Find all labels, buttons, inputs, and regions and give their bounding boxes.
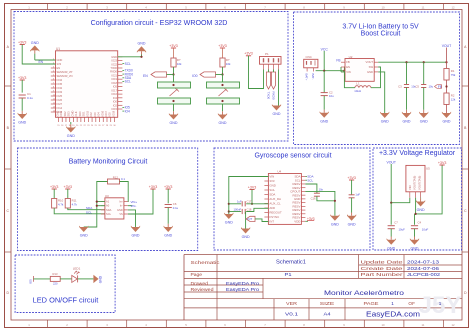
wire IO5 to R13 (34, 278, 51, 280)
LED1 symbol (72, 271, 80, 283)
section box: Configuration circuit ESP32 (14, 12, 288, 142)
svg-text:GND: GND (320, 119, 328, 123)
regulator U5 body (406, 165, 425, 191)
power flag +3V3 (U4) (248, 185, 257, 189)
junction VIN node (343, 70, 345, 72)
junction A0/A1 (96, 205, 98, 207)
svg-text:SENSOR_VP: SENSOR_VP (57, 70, 73, 74)
svg-text:IO16: IO16 (111, 92, 117, 96)
wire U4 GND to ground (305, 191, 335, 215)
junction 3V3 / C4 (415, 213, 417, 215)
svg-text:IO21: IO21 (111, 73, 117, 77)
wire resistor to node (IO0) (222, 67, 224, 75)
junction button top (EN) (172, 84, 174, 86)
wire R13 to LED1 (60, 278, 72, 280)
svg-text:LED ON/OFF circuit: LED ON/OFF circuit (33, 296, 99, 305)
svg-text:SCL: SCL (86, 210, 92, 214)
wire rail to capacitor C5 (423, 62, 425, 84)
svg-text:10: 10 (381, 6, 385, 10)
U4 left pins (264, 175, 282, 224)
wire stubs to right net labels (122, 64, 124, 112)
svg-text:SCL: SCL (125, 62, 131, 66)
svg-text:10uH: 10uH (354, 89, 361, 93)
wire +3V3 to P1 pin 1 (249, 56, 264, 89)
svg-text:1: 1 (439, 301, 442, 306)
junction at ground flag (140, 56, 142, 58)
svg-text:SENSOR_VN: SENSOR_VN (57, 74, 73, 78)
resistor R2 (feedback lower) (444, 93, 449, 105)
junction left rail / C18 (228, 210, 230, 212)
gyroscope U4 body (268, 174, 301, 225)
svg-text:U1: U1 (56, 47, 60, 51)
pin connection +3V3 to resistor (IO0) (222, 48, 224, 58)
wire C18 to U4 (246, 208, 268, 211)
svg-text:IO0: IO0 (113, 100, 118, 104)
ground (C17 C18) (241, 227, 250, 239)
svg-text:VOUT(TAB): VOUT(TAB) (413, 176, 417, 190)
ground (C2) (320, 96, 329, 124)
pin connection R2 to ground (red) (446, 105, 448, 114)
svg-text:GND: GND (381, 120, 389, 124)
power flag +3V3 (U1 supply) (18, 40, 27, 44)
svg-text:GND: GND (170, 121, 178, 125)
connector P1 body (260, 57, 282, 65)
capacitor C19 (349, 195, 355, 198)
svg-text:IO5: IO5 (113, 85, 118, 89)
wire +3V3 to capacitor C1 (21, 80, 23, 93)
svg-text:VDD: VDD (294, 219, 300, 223)
resistor R13 body (50, 276, 60, 281)
shunt resistor R12 body (108, 179, 120, 184)
svg-text:IO15: IO15 (111, 107, 117, 111)
svg-text:IO4: IO4 (97, 112, 101, 117)
svg-text:10uF: 10uF (422, 228, 429, 232)
frame row letters (6, 45, 467, 295)
svg-text:AD0: AD0 (269, 206, 275, 210)
svg-text:11: 11 (422, 323, 425, 327)
svg-text:GND: GND (443, 120, 451, 124)
wire U3 GND down (128, 210, 136, 227)
svg-text:+3V3: +3V3 (248, 185, 257, 189)
title block outline (184, 255, 462, 321)
wire P1 pin 2 to port (268, 70, 270, 73)
svg-text:+3V3: +3V3 (438, 161, 447, 165)
wire EN/VIN join (341, 71, 344, 73)
svg-text:2024-07-06: 2024-07-06 (407, 266, 440, 271)
svg-text:Update Date: Update Date (361, 259, 404, 264)
svg-text:JLCPCB-002: JLCPCB-002 (407, 272, 441, 277)
power flag +3V3 (EN button) (169, 44, 178, 48)
boost IC U2 body (345, 59, 374, 82)
svg-text:GND: GND (117, 208, 123, 212)
wire INT port to U4 (255, 219, 268, 222)
power flag +3V3 (regulator output) (438, 161, 447, 165)
capacitor C18 (inline) (242, 209, 245, 214)
power flag +3V3 (EN pullup) (18, 76, 27, 80)
battery connector CN4 body (304, 59, 318, 68)
svg-text:Reviewed: Reviewed (191, 287, 215, 292)
push button lower contact (IO0) (207, 98, 240, 104)
svg-text:SCL: SCL (269, 188, 275, 192)
svg-text:220: 220 (53, 282, 58, 286)
svg-text:C7: C7 (394, 221, 398, 225)
svg-text:C3: C3 (398, 84, 402, 88)
svg-text:10u: 10u (429, 84, 434, 88)
wire 3V3 net to C4 (414, 214, 416, 225)
ground (U1 right GND) (137, 42, 146, 57)
svg-text:C5: C5 (415, 84, 419, 88)
wire +3V3 to R11 (67, 189, 69, 199)
ESP32 module U1 body (56, 51, 118, 118)
capacitor C17 (inline) (242, 201, 245, 206)
svg-text:1uF: 1uF (237, 199, 242, 203)
svg-text:4.7k: 4.7k (72, 202, 78, 206)
svg-text:SDA: SDA (106, 208, 112, 212)
svg-text:R13: R13 (53, 272, 58, 276)
svg-text:IO2: IO2 (113, 103, 118, 107)
capacitor C6 (165, 205, 172, 208)
svg-text:C16: C16 (311, 197, 316, 201)
boost IC U2 pin stubs (341, 62, 378, 72)
svg-text:+3V3: +3V3 (64, 185, 73, 189)
svg-text:C18: C18 (247, 208, 252, 212)
svg-text:GND: GND (403, 120, 411, 124)
svg-text:GND: GND (269, 184, 275, 188)
svg-text:FB: FB (346, 60, 350, 64)
junction +3V3 / C17 wire (251, 203, 253, 205)
wire node to button (IO0) (222, 75, 224, 83)
svg-text:LED1: LED1 (73, 266, 81, 270)
svg-text:RXD0: RXD0 (271, 92, 275, 100)
svg-text:AUX_CL: AUX_CL (269, 202, 281, 206)
junction FB node (445, 85, 447, 87)
svg-text:+3.3V Voltage Regulator: +3.3V Voltage Regulator (379, 150, 456, 157)
svg-text:U5: U5 (426, 167, 430, 171)
wire GND flag to U1 GND pin (35, 59, 56, 61)
svg-text:IO14: IO14 (57, 106, 63, 110)
wire U5 VOUT to +3V3 (416, 165, 443, 214)
title block vertical lines (217, 255, 404, 321)
wire resistor to node (EN) (173, 67, 175, 75)
svg-text:TXD0: TXD0 (266, 92, 270, 100)
svg-text:0.1u: 0.1u (27, 96, 33, 100)
svg-text:3V3: 3V3 (269, 179, 275, 183)
svg-text:Create Date: Create Date (361, 266, 404, 271)
junction (IO0) (221, 73, 223, 75)
wire port to node (IO0) (216, 74, 223, 76)
svg-text:GND: GND (367, 70, 373, 74)
push button switch lever (EN) (170, 89, 180, 97)
svg-text:GND: GND (417, 208, 425, 212)
push button upper contact (IO0) (207, 82, 240, 88)
svg-text:4.7k: 4.7k (58, 202, 64, 206)
svg-text:IO33: IO33 (57, 90, 63, 94)
section box: +3.3V Voltage Regulator (373, 148, 462, 250)
wire +3V3 to R10 (53, 189, 55, 199)
power flag +3V3 (C6) (164, 185, 173, 189)
svg-text:CN4: CN4 (306, 55, 312, 59)
junction VOUT rail / C3 (405, 61, 407, 63)
svg-text:U4: U4 (277, 170, 281, 174)
ground (U3 addr) (79, 226, 88, 238)
svg-text:+3V3: +3V3 (218, 44, 227, 48)
svg-text:+3V3: +3V3 (164, 185, 173, 189)
resistor (EN pullup) (171, 58, 176, 67)
svg-text:0.1: 0.1 (121, 177, 125, 181)
svg-text:Boost Circuit: Boost Circuit (361, 31, 401, 38)
U3 pin names (106, 200, 123, 216)
junction (EN) (172, 73, 174, 75)
svg-text:In+: In+ (119, 200, 123, 204)
ground (C4) (410, 229, 419, 251)
wire U3 VS to +3V3 (128, 189, 153, 214)
wire U3 A0 (97, 205, 105, 207)
svg-text:CMD: CMD (70, 110, 74, 116)
svg-text:11: 11 (422, 6, 425, 10)
ground (U4 left rail) (224, 213, 233, 225)
svg-text:EN: EN (39, 60, 44, 64)
svg-text:IO35: IO35 (57, 82, 63, 86)
wire U2 GND pin down (378, 72, 385, 113)
net stub IO5 (33, 276, 35, 282)
svg-text:A4: A4 (324, 312, 332, 317)
net port (266, 72, 270, 89)
svg-text:RXD0: RXD0 (110, 70, 117, 74)
wire rail to C17 (229, 203, 241, 205)
svg-text:P1: P1 (285, 272, 293, 277)
svg-text:VIN: VIN (346, 70, 351, 74)
svg-text:IO19: IO19 (111, 77, 117, 81)
svg-text:1: 1 (391, 301, 394, 306)
battery CN4 pin stubs (307, 68, 314, 72)
junction VCC node (323, 70, 325, 72)
junction left rail / C17 (228, 203, 230, 205)
svg-text:IO32: IO32 (57, 86, 63, 90)
net port (246, 216, 255, 221)
svg-text:Gyroscope sensor circuit: Gyroscope sensor circuit (254, 153, 331, 160)
svg-text:BAT-: BAT- (311, 74, 315, 80)
power flag +3V3 (U3 VS) (149, 185, 158, 189)
svg-text:IO34: IO34 (57, 78, 63, 82)
svg-text:+3V3: +3V3 (18, 40, 27, 44)
svg-text:GND: GND (138, 42, 146, 46)
svg-text:Configuration circuit - ESP32: Configuration circuit - ESP32 WROOM 32D (91, 19, 228, 27)
net port flag IO0 (200, 72, 216, 77)
svg-text:IO18: IO18 (111, 110, 115, 116)
capacitor C5 (421, 85, 426, 88)
wire port to node (EN) (167, 74, 174, 76)
junction button bottom (IO0) (221, 100, 223, 102)
svg-text:IO17: IO17 (111, 88, 117, 92)
svg-text:GND: GND (242, 235, 250, 239)
ground (U2) (380, 112, 389, 124)
svg-text:IO17: IO17 (104, 110, 108, 116)
svg-text:IO15: IO15 (85, 110, 89, 116)
svg-text:Battery Monitoring Circuit: Battery Monitoring Circuit (69, 159, 148, 166)
section box: Gyroscope sensor circuit (214, 148, 370, 250)
capacitor C2 (321, 93, 328, 96)
svg-text:1uF: 1uF (355, 192, 360, 196)
U4 right pins (290, 175, 305, 224)
resistor R10 (52, 199, 57, 209)
svg-text:12: 12 (451, 6, 455, 10)
svg-text:+3V3: +3V3 (244, 52, 253, 56)
capacitor C16 (314, 193, 320, 196)
ground (U1 left GND) (30, 41, 39, 60)
ground (U3) (131, 226, 140, 238)
net port (271, 72, 275, 89)
ESP32 U1 left pins (51, 58, 73, 114)
wire LED1 to ground (78, 278, 94, 280)
section box: Battery Monitoring Circuit (18, 148, 198, 251)
wire P1 pin 4 to ground (278, 70, 280, 106)
ground (U5 tab) (416, 198, 425, 212)
wire EN tied to VIN (340, 67, 342, 72)
svg-text:GND: GND (67, 134, 75, 138)
svg-text:+3V3: +3V3 (149, 185, 158, 189)
wire C16 to ground net (317, 196, 335, 201)
wire U5 VIN to VOUT net (391, 198, 410, 203)
svg-text:10u: 10u (329, 94, 334, 98)
svg-text:EN: EN (143, 74, 148, 78)
svg-text:IO26: IO26 (57, 98, 63, 102)
U5 pin names (vertical) (408, 176, 422, 190)
ground (C19) (347, 198, 356, 227)
section box: 3.7V Li-Ion Battery to 5V Boost Circuit (294, 12, 460, 145)
svg-text:3.7V Li-Ion Battery to 5V: 3.7V Li-Ion Battery to 5V (342, 24, 419, 31)
junction C16 / ground wire (334, 200, 336, 202)
svg-text:INT: INT (247, 217, 252, 221)
ground (rotated right) (93, 275, 102, 284)
svg-text:L1: L1 (356, 82, 360, 86)
wire U3 A1/A0 to ground (84, 202, 105, 227)
svg-text:Schematic: Schematic (191, 260, 221, 265)
power flag +3V3 (connector P1) (244, 52, 253, 56)
svg-text:IO4: IO4 (125, 109, 130, 113)
power flag +3V3 (R11) (64, 185, 73, 189)
pin connection R1 to R2 (red) (446, 80, 448, 93)
svg-text:FSYNC: FSYNC (269, 215, 279, 219)
junction VOUT rail / divider (445, 61, 447, 63)
svg-text:CLK: CLK (74, 111, 78, 116)
U3 pin stubs (101, 202, 128, 214)
svg-text:75k: 75k (451, 73, 456, 77)
svg-text:SD2: SD2 (63, 111, 67, 117)
svg-text:VIN: VIN (408, 185, 412, 190)
capacitor C7 (388, 226, 395, 229)
svg-text:GND: GND (387, 246, 395, 250)
ESP32 U1 right pins (110, 55, 122, 111)
power flag +3V3 (R10) (50, 185, 59, 189)
wire U5 VOUT down (415, 198, 417, 214)
wire +3V3 to C19 (351, 180, 353, 195)
svg-text:P1: P1 (265, 52, 269, 56)
wire VOUT net to C7 (390, 203, 392, 225)
svg-text:GND: GND (56, 111, 60, 117)
svg-text:A1: A1 (106, 200, 110, 204)
svg-text:+3V3: +3V3 (347, 176, 356, 180)
junction button bottom (EN) (172, 100, 174, 102)
svg-text:IO25: IO25 (57, 94, 63, 98)
wire CPOUT to C16 (305, 184, 317, 193)
wire +3V3 to C6 (167, 189, 169, 203)
svg-text:SCL: SCL (106, 212, 112, 216)
ground (R2) (442, 112, 451, 124)
ESP32 U1 bottom pins (56, 110, 117, 126)
svg-text:100nF: 100nF (234, 208, 242, 212)
wire R10 to U3 SCL (54, 208, 105, 214)
svg-text:IO18: IO18 (111, 81, 117, 85)
svg-text:U3: U3 (105, 194, 109, 198)
svg-text:C17: C17 (247, 199, 252, 203)
power flag +3V3 (IO0 button) (218, 44, 227, 48)
svg-text:IO16: IO16 (100, 110, 104, 116)
wire node down to capacitor C2 (323, 71, 325, 93)
ground (U4 right) (330, 214, 339, 226)
svg-text:GND: GND (111, 55, 117, 59)
capacitor C3 (404, 85, 409, 88)
ground (C3) (402, 88, 411, 124)
net port flag FB (435, 85, 442, 89)
svg-text:0.1u: 0.1u (173, 206, 179, 210)
svg-text:GND: GND (164, 234, 172, 238)
svg-text:VOUT: VOUT (366, 60, 374, 64)
svg-text:GND: GND (273, 112, 281, 116)
svg-text:VIN-: VIN- (131, 204, 137, 208)
svg-text:GND: GND (225, 221, 233, 225)
wire P1 pin 3 to port (273, 70, 275, 73)
svg-text:SDA: SDA (269, 193, 275, 197)
svg-text:EasyEDA.com: EasyEDA.com (366, 309, 420, 318)
wire C17 to U4 (246, 203, 268, 205)
svg-text:10k: 10k (226, 62, 231, 66)
push button upper contact (EN) (158, 82, 191, 88)
svg-text:GND: GND (99, 275, 103, 283)
svg-text:10n: 10n (319, 187, 324, 191)
wire +3V3 to U1 3V3 pin (22, 45, 55, 65)
svg-text:10k: 10k (177, 62, 182, 66)
svg-text:SCL: SCL (125, 80, 131, 84)
svg-text:GND: GND (348, 222, 356, 226)
ground (below U1) (66, 122, 75, 138)
svg-text:IO22: IO22 (111, 62, 117, 66)
wire stubs to U4 right net labels (305, 177, 307, 181)
svg-text:SD0: SD0 (78, 111, 82, 117)
svg-text:10: 10 (381, 323, 385, 327)
wire R11 to U3 SDA (68, 208, 105, 210)
wire C18 to ground (245, 212, 247, 229)
svg-text:VOUT(TAB): VOUT(TAB) (417, 176, 421, 190)
wire U1 GND pin to ground flag (118, 56, 142, 58)
resistor R11 (65, 199, 70, 209)
wire node to button (EN) (173, 75, 175, 83)
svg-text:+3V3: +3V3 (169, 44, 178, 48)
ground (C6) (164, 208, 173, 238)
wire L1 right to SW pin (371, 67, 381, 88)
wire U2 VOUT rail (378, 61, 446, 63)
capacitor C1 (19, 95, 26, 98)
ground (EN button) (169, 104, 178, 125)
svg-text:GND: GND (331, 222, 339, 226)
svg-text:IO23: IO23 (111, 59, 117, 63)
wire VOUT down (390, 164, 392, 203)
svg-text:SCL: SCL (307, 178, 313, 182)
svg-text:3V3: 3V3 (57, 62, 62, 66)
boost IC U2 pin names (346, 60, 373, 74)
wire shunt right to In+ pin (120, 182, 129, 202)
svg-text:V0.1: V0.1 (285, 312, 299, 317)
capacitor C4 (411, 226, 418, 229)
